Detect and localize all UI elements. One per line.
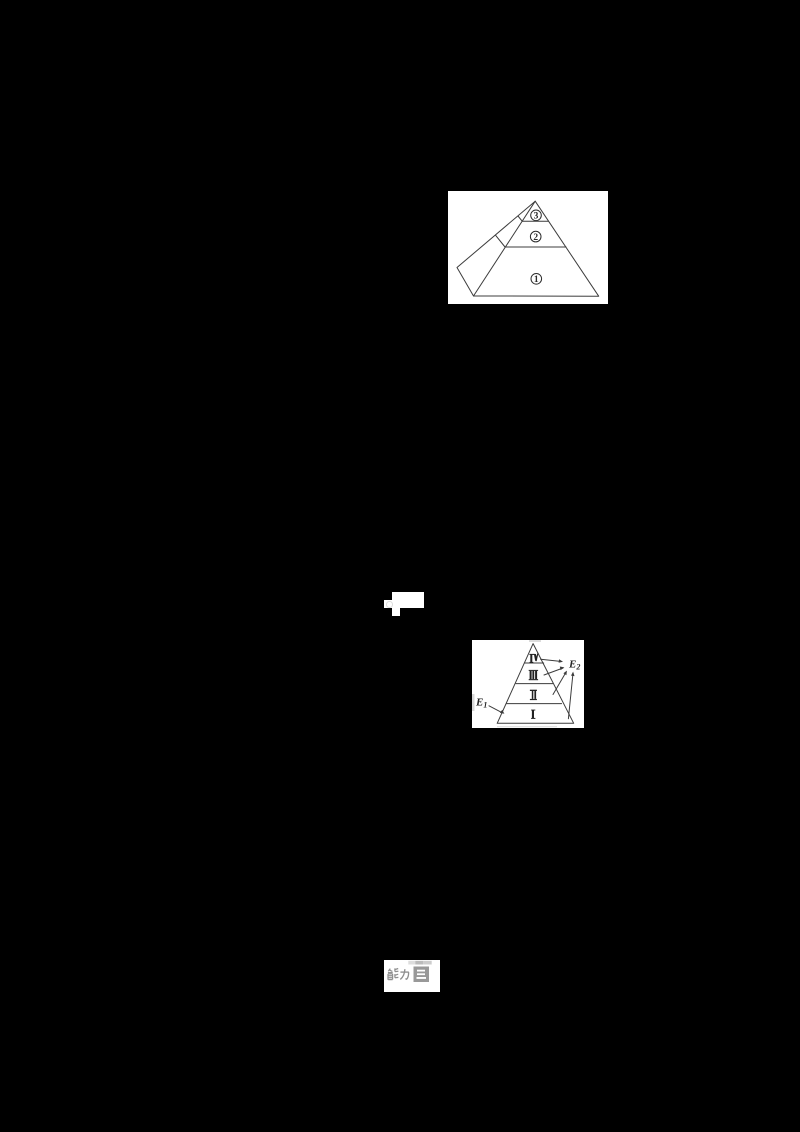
side divider under layer 3: [518, 216, 522, 221]
divider under II: [507, 703, 562, 705]
divider under IV: [524, 662, 543, 664]
top gray strips: [408, 961, 415, 965]
arrow IV to E2: [541, 659, 562, 661]
white blob icon: left tab: [384, 600, 392, 608]
gray scan artifacts: [472, 694, 475, 711]
svg-text:3: 3: [534, 212, 539, 222]
white blob icon: bottom tab: [392, 608, 400, 616]
roman numeral II: [530, 690, 537, 700]
roman numeral III: [529, 670, 538, 680]
divider under layer 3: [522, 220, 548, 222]
pyramid outline (trapezoid base): [497, 644, 574, 724]
arrow II to E2: [553, 672, 566, 695]
badge 能力(三) near page bottom: [384, 960, 440, 992]
figure 2: energy pyramid I-IV with E1 E2 arrows: [472, 640, 584, 728]
label ②: [530, 231, 541, 243]
figure 1: 3D ecological pyramid with layers ①②③: [448, 191, 608, 304]
divider under layer 2: [505, 246, 566, 248]
arrow III to E2: [544, 668, 563, 675]
side divider under layer 2: [496, 235, 506, 247]
roman numeral IV: [529, 653, 538, 663]
svg-text:1: 1: [534, 275, 539, 285]
gray square with white 三: [414, 967, 430, 983]
label ①: [531, 274, 542, 286]
white blob icon: main rectangle: [392, 592, 424, 608]
character 能 (gray, simplified strokes): [388, 968, 399, 979]
faint circle inside blob: [386, 601, 393, 608]
label ③: [531, 210, 542, 222]
svg-text:E1: E1: [475, 697, 487, 710]
arrow I to E2: [568, 673, 573, 719]
svg-text:E2: E2: [568, 659, 580, 672]
roman numeral I: [531, 710, 535, 719]
arrow E1 to layer I: [489, 706, 503, 713]
character 力 (gray, simplified strokes): [400, 969, 409, 979]
side face: [457, 201, 535, 296]
svg-text:2: 2: [533, 233, 538, 243]
front face triangle: [474, 201, 599, 296]
divider under III: [516, 683, 553, 685]
